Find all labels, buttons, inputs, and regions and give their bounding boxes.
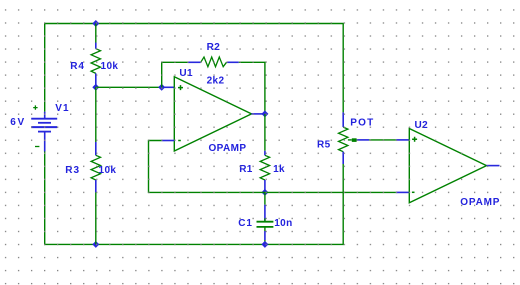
op-amp U1 bbox=[174, 68, 251, 154]
node R1 C1 mid tee bbox=[261, 189, 268, 196]
wire R3 bottom bbox=[95, 192, 97, 244]
resistor R3 bbox=[65, 142, 116, 192]
wire bottom rail bbox=[45, 152, 344, 245]
node plus input tee bbox=[158, 84, 165, 91]
wire output down to R1 bbox=[264, 114, 266, 151]
resistor R1 bbox=[239, 151, 285, 193]
wire R2 to output column bbox=[239, 62, 265, 114]
wire minus loop: U1 minus to mid rail bbox=[149, 141, 396, 193]
resistor R4 bbox=[70, 43, 118, 88]
node R3 bottom junction bbox=[92, 241, 99, 248]
wire R3 top bbox=[95, 87, 97, 142]
wire feedback up and over bbox=[162, 62, 188, 87]
wire U1 output pin bbox=[252, 113, 265, 115]
node U1 output tee bbox=[261, 110, 268, 117]
node top junction R4 bbox=[92, 20, 99, 27]
node R4 bottom junction bbox=[92, 84, 99, 91]
wire wiper to U2 plus bbox=[369, 139, 396, 141]
wire U2 minus pin bbox=[396, 191, 409, 193]
op-amp U2 bbox=[409, 120, 500, 208]
wire U1 plus pin bbox=[162, 86, 175, 88]
wire top rail bbox=[45, 24, 344, 113]
wire U2 output pin bbox=[487, 165, 500, 167]
wire U2 plus pin bbox=[396, 139, 409, 141]
potentiometer R5 bbox=[317, 112, 374, 164]
wire R4 top bbox=[95, 24, 97, 44]
capacitor C1 bbox=[238, 192, 292, 244]
resistor R2 bbox=[188, 42, 239, 86]
battery V1 bbox=[10, 103, 69, 152]
wire U1 minus pin bbox=[162, 140, 175, 142]
wire R4 junction to U1 plus bbox=[96, 86, 162, 88]
node C1 bottom junction bbox=[261, 241, 268, 248]
